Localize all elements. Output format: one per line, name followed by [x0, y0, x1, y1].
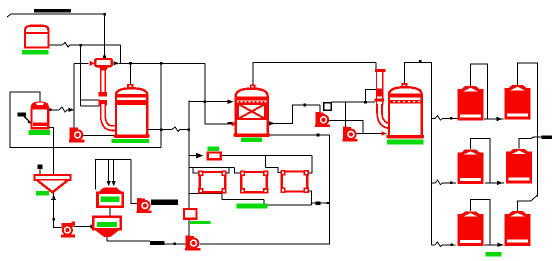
wire tank4 over [519, 137, 542, 149]
wire row1 feed [432, 116, 458, 121]
wire row3 feed [432, 242, 456, 247]
condenser header H1 [95, 59, 111, 66]
wire funnel instrument stem [39, 169, 41, 175]
green label F1 [36, 191, 49, 195]
instrument vessel2 [18, 112, 27, 116]
black bar top [34, 9, 71, 13]
flow arrows [69, 61, 504, 247]
wire bottom st2 [222, 193, 264, 199]
wire filter feed bus [189, 166, 229, 168]
wire pump4 discharge [200, 135, 330, 244]
wire scrubber nozzle riser [253, 63, 376, 86]
wire long top bus y63 [119, 62, 205, 64]
wire u3 outlet [307, 191, 311, 205]
wire vert x161 [160, 63, 162, 148]
green label V7 [387, 140, 423, 145]
wire RB2 to pump4 [188, 219, 190, 237]
arrow scrubber out [269, 121, 275, 125]
black bar filter outlet [315, 202, 320, 205]
wire u1 inlet [193, 167, 200, 173]
thin column C2 [375, 69, 391, 130]
wire u1-u2 link [225, 167, 229, 173]
black bar bottom left [150, 241, 165, 245]
black bar right edge [542, 135, 552, 139]
wire mid drop [265, 155, 267, 167]
arrow row2 link [497, 181, 503, 185]
wire hopper interconnect [109, 207, 111, 217]
wire tank6 over [518, 195, 538, 211]
wire drop x120 [119, 45, 121, 63]
wire box1 top bus [222, 154, 312, 156]
tank T3 [458, 150, 484, 185]
pump P2 [61, 222, 75, 238]
arrow box1 feed [196, 153, 203, 159]
arrow row3 link [498, 243, 504, 247]
green label box1 [208, 147, 220, 151]
dot row2 feed [450, 182, 453, 185]
arrow vessel2 out [69, 108, 74, 112]
wire pump1 discharge [82, 135, 113, 137]
pump P1 [69, 127, 84, 142]
arrow scrubber feed [228, 100, 234, 104]
wire column top drop [104, 14, 106, 59]
arrow hopper feed b [112, 181, 116, 186]
tank T2 [505, 85, 531, 120]
wire pumpA discharge [329, 121, 363, 134]
scrubber V6 [234, 85, 270, 136]
wire scrubber feed vert [188, 101, 190, 209]
wire hopper feed b [113, 160, 115, 186]
wire vessel1 outlet [147, 127, 188, 131]
wire tank1 outlet to x120 [50, 43, 121, 48]
red box RB1 [208, 152, 221, 159]
pump P3 [136, 198, 151, 213]
wire bottom st3 [264, 199, 311, 205]
wire row2 feed [432, 180, 457, 185]
pump P4 [185, 236, 200, 251]
wire lower hopper drain [107, 237, 150, 241]
tank T5 [458, 211, 484, 246]
wire header left feed [74, 62, 89, 64]
wire row2 link [485, 182, 504, 184]
pump PB [342, 127, 357, 142]
wire black bar to pump4 [165, 243, 187, 245]
wire vert x80.7 [80, 45, 82, 106]
black bar pump3 discharge [151, 199, 178, 205]
funnel F1 [35, 175, 71, 192]
arrow pump2 out [91, 224, 97, 228]
vessel V2 small drum [32, 102, 49, 128]
wire pump2 discharge [74, 226, 97, 228]
wire instrument bus [331, 101, 375, 103]
wire row3 link [484, 244, 504, 246]
wire pumpB discharge [356, 133, 382, 135]
arrow row1 link [497, 117, 503, 121]
wire pumpA drop [319, 105, 321, 113]
wire vessel2 loop [10, 92, 161, 147]
filter unit U1 [198, 171, 227, 194]
tank T6 [505, 211, 531, 246]
wire tank3 over [471, 138, 490, 183]
wire u3 inlet [266, 167, 282, 172]
tank T1 [458, 86, 484, 121]
wire hopper feed header [96, 160, 132, 190]
red box RB2 [184, 209, 196, 219]
instrument vessel2 diagonal [24, 116, 32, 123]
vessel V5 reactor 1 [114, 85, 150, 138]
filter unit U2 [240, 171, 268, 194]
wire tank1 over [471, 64, 488, 118]
arrow pumpB out red [381, 131, 387, 135]
wire vessel2 drain [49, 127, 54, 174]
wire mid feed drop from top [205, 63, 234, 124]
pump PA [315, 112, 330, 127]
green label V6 [241, 138, 262, 143]
wire vessel2 outlet [50, 107, 74, 112]
hopper V3 upper [98, 187, 123, 207]
column C1 [99, 67, 117, 129]
wire vert x73.8 to pump1 [73, 63, 75, 128]
instrument funnel [37, 165, 42, 169]
filter unit U3 [280, 170, 309, 193]
wire u2 inlet [229, 167, 241, 173]
wire box1 feed [189, 155, 198, 157]
wire thin column drop [375, 63, 377, 71]
instrument square A [324, 103, 332, 110]
wire pump3 feed [131, 160, 138, 204]
arrow scrubber mid feed red [227, 122, 232, 124]
wire scrubber top feed [189, 101, 228, 103]
wire vessel4 top loop [405, 62, 432, 244]
wire bottom st1 [189, 192, 222, 194]
wire u3 right drop [307, 155, 312, 173]
wire tank5 over [471, 200, 490, 245]
wire column side1 [81, 99, 100, 101]
hopper V4 lower [93, 217, 121, 237]
wire thin col side feed [366, 90, 377, 103]
green label U2 [237, 204, 268, 209]
green label V2 [29, 130, 50, 135]
green label V1 [22, 50, 49, 55]
wire row1 link [484, 118, 504, 120]
wire pumpB drop [344, 102, 346, 127]
wire scrubber outlet [268, 105, 320, 123]
wire funnel drain to pump2 [51, 192, 62, 227]
arrow header in red [90, 61, 96, 66]
green label bank [485, 252, 501, 256]
wire y135 line [268, 134, 330, 136]
vessel V7 reactor 2 [387, 84, 425, 138]
arrow header out [113, 61, 119, 65]
wire vessel1 nozzle drop [130, 63, 132, 85]
wire column side2 [81, 105, 100, 107]
green label V5 [112, 139, 149, 143]
green label RB2 [190, 221, 210, 224]
wire filter tail [311, 202, 327, 204]
wire top feed line [7, 14, 105, 17]
tank T4 [506, 149, 532, 184]
wire hopper feed a [108, 160, 110, 186]
arrow hopper feed a [107, 181, 111, 186]
vessel V1 feed tank [25, 26, 49, 48]
wire tank2 over [518, 63, 538, 197]
